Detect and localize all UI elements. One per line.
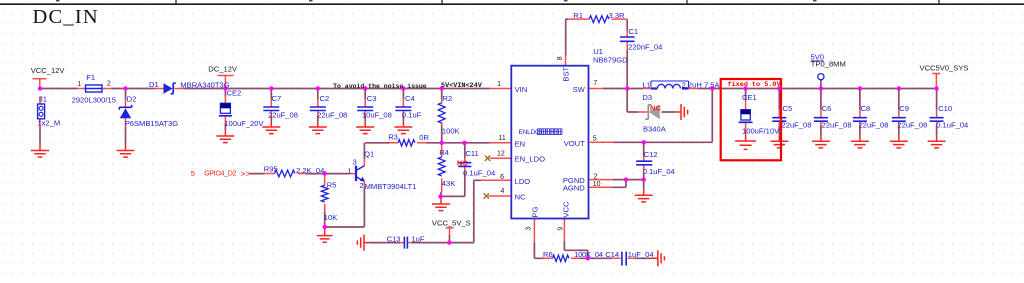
svg-text:22uF_08: 22uF_08 (822, 121, 852, 130)
svg-text:C13: C13 (387, 234, 401, 243)
svg-text:1: 1 (497, 81, 501, 88)
svg-text:8: 8 (557, 56, 564, 60)
svg-text:2.2K_04: 2.2K_04 (296, 166, 324, 175)
svg-text:NC: NC (650, 103, 661, 112)
svg-text:1: 1 (77, 81, 81, 88)
svg-text:2: 2 (594, 173, 598, 180)
svg-text:C4: C4 (405, 94, 415, 103)
svg-text:10uF_08: 10uF_08 (362, 111, 392, 120)
svg-text:2: 2 (107, 80, 111, 87)
svg-text:MBRA340T3G: MBRA340T3G (180, 81, 229, 90)
svg-text:To avoid the noise issue: To avoid the noise issue (333, 83, 427, 90)
svg-text:C9: C9 (899, 104, 909, 113)
svg-text:3.3R: 3.3R (609, 11, 626, 20)
svg-text:CE2: CE2 (227, 89, 242, 98)
svg-text:3: 3 (352, 157, 356, 166)
svg-text:LDO: LDO (515, 177, 531, 186)
svg-text:22uF_08: 22uF_08 (268, 111, 298, 120)
svg-text:100uF_20V: 100uF_20V (224, 119, 264, 128)
svg-text:J1: J1 (39, 95, 47, 104)
svg-text:11: 11 (499, 135, 506, 142)
svg-text:22uF_08: 22uF_08 (859, 121, 889, 130)
svg-text:220nF_04: 220nF_04 (628, 42, 662, 51)
svg-text:C3: C3 (367, 94, 377, 103)
svg-text:1uF_04: 1uF_04 (628, 250, 654, 259)
svg-text:100K_04: 100K_04 (574, 250, 603, 259)
svg-text:5: 5 (191, 169, 195, 178)
svg-text:L1: L1 (642, 81, 650, 90)
svg-text:C12: C12 (644, 150, 658, 159)
svg-text:100K: 100K (442, 127, 460, 136)
svg-text:DC_IN: DC_IN (33, 6, 99, 28)
svg-text:PG: PG (531, 207, 540, 218)
svg-text:7: 7 (593, 80, 597, 87)
svg-text:AGND: AGND (563, 183, 585, 192)
svg-text:NC: NC (457, 159, 468, 168)
svg-text:22uF_08: 22uF_08 (317, 111, 347, 120)
svg-text:D3: D3 (642, 93, 652, 102)
svg-text:>>: >> (241, 168, 251, 178)
svg-text:1x2_M: 1x2_M (37, 119, 60, 128)
svg-text:C1: C1 (628, 27, 638, 36)
svg-text:12: 12 (497, 151, 505, 158)
svg-text:R1: R1 (573, 11, 583, 20)
svg-text:Q1: Q1 (364, 150, 374, 159)
svg-text:SW: SW (573, 85, 586, 94)
svg-text:4: 4 (500, 188, 504, 195)
svg-text:NC: NC (515, 193, 526, 202)
svg-text:D1: D1 (149, 80, 159, 89)
svg-text:DC_12V: DC_12V (208, 65, 238, 74)
svg-text:P6SMB15AT3G: P6SMB15AT3G (125, 119, 179, 128)
svg-text:0.1uF: 0.1uF (402, 111, 422, 120)
svg-text:EN: EN (515, 139, 526, 148)
svg-text:100uF/10V: 100uF/10V (742, 127, 780, 136)
svg-text:D2: D2 (127, 95, 137, 104)
svg-text:0.1uF_04: 0.1uF_04 (936, 121, 968, 130)
svg-text:43K: 43K (442, 179, 456, 188)
svg-text:0.1uF_04: 0.1uF_04 (463, 169, 495, 178)
svg-text:0.1uF_04: 0.1uF_04 (643, 167, 675, 176)
svg-text:0R: 0R (419, 133, 429, 142)
svg-text:5: 5 (593, 135, 597, 142)
svg-text:C7: C7 (272, 94, 282, 103)
svg-text:R6: R6 (543, 250, 553, 259)
svg-text:VIN: VIN (515, 85, 528, 94)
svg-text:VCC_5V_S: VCC_5V_S (432, 218, 471, 227)
svg-text:9: 9 (557, 227, 564, 231)
svg-text:R4: R4 (439, 148, 449, 157)
svg-text:10: 10 (593, 181, 601, 188)
svg-text:C11: C11 (465, 149, 478, 158)
svg-text:1uF: 1uF (411, 234, 424, 243)
svg-text:BST: BST (561, 66, 570, 81)
svg-text:MMBT3904LT1: MMBT3904LT1 (365, 182, 417, 191)
svg-text:fixed to 5.0V: fixed to 5.0V (728, 81, 782, 89)
svg-text:22uF_08: 22uF_08 (897, 121, 927, 130)
svg-text:1: 1 (347, 167, 351, 176)
svg-text:C10: C10 (938, 104, 952, 113)
svg-text:6: 6 (500, 174, 504, 181)
svg-text:C5: C5 (783, 104, 793, 113)
svg-text:EN_LDO: EN_LDO (515, 155, 545, 164)
svg-text:C2: C2 (320, 94, 330, 103)
svg-text:C6: C6 (822, 104, 832, 113)
svg-text:CE1: CE1 (742, 93, 757, 102)
svg-text:VCC: VCC (561, 201, 570, 218)
svg-text:R2: R2 (443, 94, 453, 103)
svg-text:B340A: B340A (643, 125, 667, 134)
svg-text:VCC_12V: VCC_12V (31, 66, 66, 75)
svg-text:3: 3 (525, 227, 532, 231)
svg-text:C8: C8 (861, 104, 871, 113)
svg-text:22uF_08: 22uF_08 (782, 121, 812, 130)
svg-text:5V0: 5V0 (811, 53, 825, 62)
svg-text:R5: R5 (327, 180, 337, 189)
svg-text:C14: C14 (605, 250, 619, 259)
svg-text:2920L300/15: 2920L300/15 (72, 96, 116, 105)
svg-text:10K: 10K (324, 213, 338, 222)
svg-text:F1: F1 (86, 73, 95, 82)
svg-text:2.2uH 7.5A: 2.2uH 7.5A (682, 81, 721, 90)
svg-text:R3: R3 (388, 133, 398, 142)
svg-text:VCC5V0_SYS: VCC5V0_SYS (920, 64, 969, 73)
svg-text:ENLDO: ENLDO (519, 129, 540, 136)
svg-text:VOUT: VOUT (564, 139, 585, 148)
svg-text:GPIO4_D2: GPIO4_D2 (204, 170, 236, 177)
svg-text:2: 2 (359, 181, 363, 190)
svg-text:5V<VIN<24V: 5V<VIN<24V (441, 82, 483, 90)
svg-text:R95: R95 (264, 164, 278, 173)
svg-text:NB679GD: NB679GD (593, 56, 628, 65)
